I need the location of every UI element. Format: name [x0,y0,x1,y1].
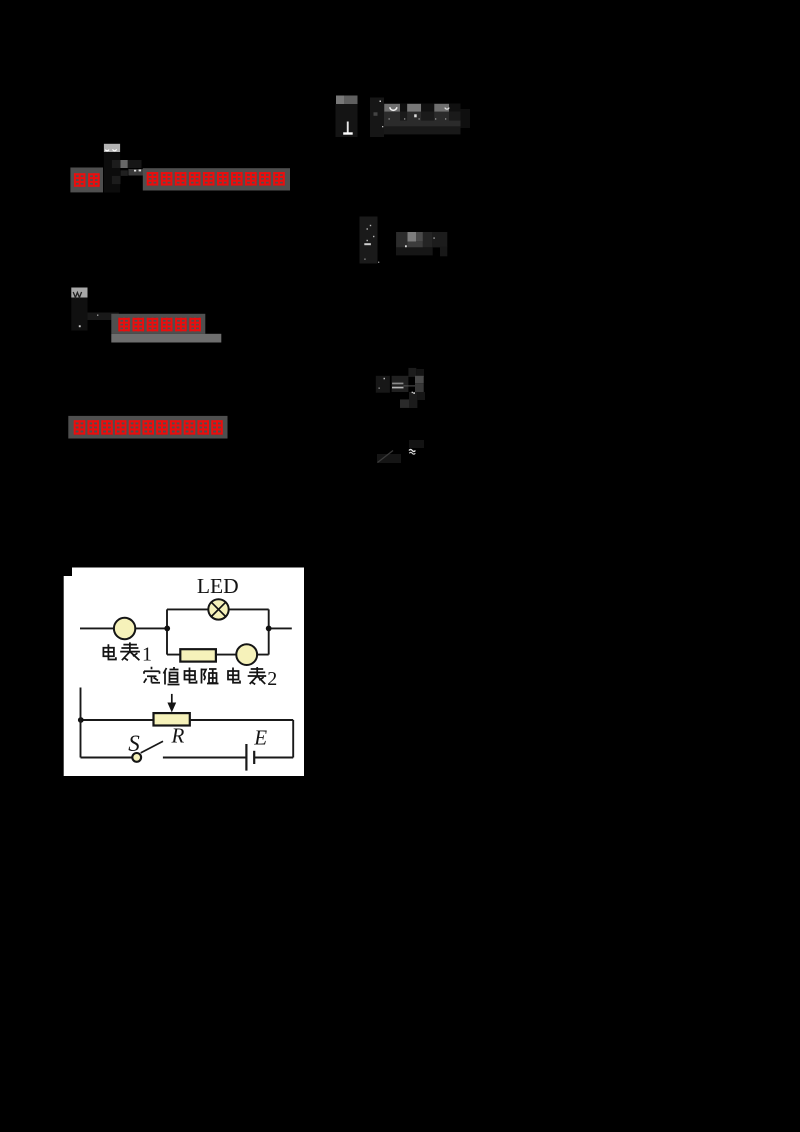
rheostat arrow [167,694,176,713]
label 定值电阻电表2 [144,667,266,685]
red answer text line 3 (11 chars) [74,420,222,434]
meter 1 (电表1) [114,618,135,639]
wire: bottom right segment [254,757,293,759]
node: right junction dot [266,626,272,632]
wire: bottom left segment [81,757,133,759]
svg-text:R: R [171,723,185,747]
label 电表1 [103,642,139,660]
svg-text:1: 1 [142,643,152,665]
wire: rheostat row right [190,719,293,721]
wire: left branch vertical [166,609,168,654]
svg-text:E: E [253,725,267,749]
wire: lower-left vertical [80,688,82,758]
wire: bottom middle segment [163,757,246,759]
wire: main line right stub [269,627,292,629]
red answer text line 2 highlight block [111,314,205,334]
wire: bottom parallel branch [167,654,269,656]
formula image 3 block group [360,217,448,264]
formula image 5 block group [376,368,425,408]
red answer text line 3 highlight block [68,416,227,439]
red answer text line 1 highlight block B [143,168,290,190]
red answer text line 2 (6 chars) [119,318,201,332]
red answer text line 1 part B (10 chars) [147,172,284,186]
red answer text line 1 highlight block A [70,168,103,193]
formula image 6 fragment group [377,440,424,463]
svg-text:2: 2 [267,668,277,690]
node: lower junction dot [78,717,84,723]
formula image 4 block group (left, line 2) [71,288,119,331]
wire: lower-right vertical [292,720,294,758]
battery E [246,744,254,771]
lamp LED symbol [208,599,228,619]
formula image 2 block group (left, line 1) [104,144,143,193]
formula image 1 block group (top) [336,96,471,138]
red answer text line 1 part A (2 chars) [74,173,99,187]
wire: rheostat row left [81,719,154,721]
switch S [132,741,163,762]
svg-text:S: S [128,731,140,756]
wire: top parallel branch [167,608,269,610]
rheostat R [154,713,190,725]
meter 2 (电表2) [236,644,257,665]
svg-text:LED: LED [197,574,239,598]
node: left junction dot [164,626,170,632]
panel background [64,568,304,777]
wire: right branch vertical [268,609,270,654]
resistor fixed (定值电阻) [180,649,216,661]
wire: main line left [80,627,167,629]
red answer text line 2 lower highlight strip [111,334,221,343]
